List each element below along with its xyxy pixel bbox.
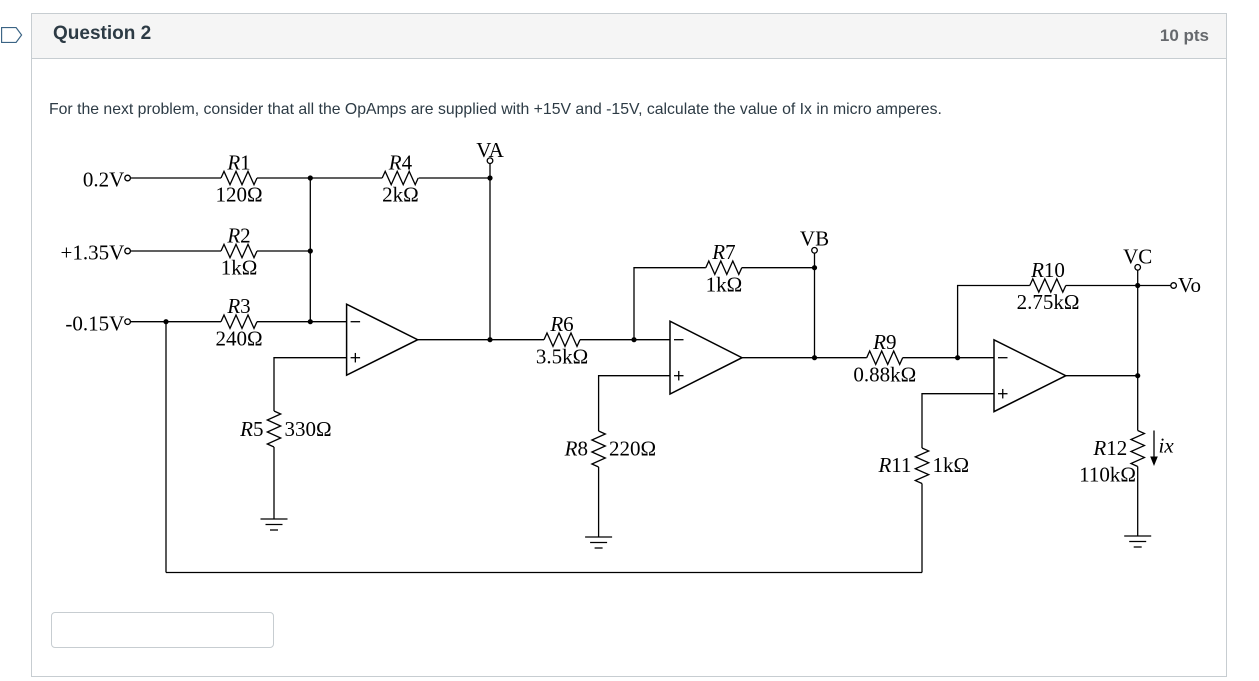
resistor R5 (267, 411, 280, 447)
svg-text:1kΩ: 1kΩ (221, 256, 258, 280)
svg-text:220Ω: 220Ω (609, 437, 656, 461)
node VB (800, 227, 829, 268)
wire 0.2V to R1 (130, 177, 221, 179)
wire R9 to U3 inverting input (903, 357, 994, 359)
resistor R9 (867, 351, 903, 364)
svg-text:0.2V: 0.2V (83, 168, 124, 192)
svg-text:3.5kΩ: 3.5kΩ (536, 344, 588, 368)
wire R11 to bottom rail (921, 484, 923, 573)
wire U1 output to R6 (490, 339, 544, 341)
wire U1 output to VA column (418, 339, 490, 341)
svg-text:ix: ix (1159, 434, 1175, 458)
op-amp U3 (994, 340, 1066, 412)
resistor R7 (706, 261, 742, 274)
svg-text:R11: R11 (877, 453, 911, 477)
wire R1 to R4 (257, 177, 382, 179)
svg-text:R6: R6 (549, 312, 573, 336)
source 0.2V terminal (83, 168, 131, 192)
svg-text:R3: R3 (226, 294, 250, 318)
op-amp U1 (347, 304, 418, 375)
wire U3 non-inverting input to R11 (922, 394, 994, 448)
svg-text:R9: R9 (872, 330, 896, 354)
wire R5 to ground (273, 447, 275, 519)
junction U1 output (487, 337, 492, 342)
resistor R4 (382, 171, 418, 184)
wire U1 non-inverting input to R5 (274, 358, 347, 411)
junction U3 inverting node (955, 355, 960, 360)
resistor R2 (221, 244, 257, 257)
resistor R8 (592, 431, 605, 467)
resistor R6 (544, 333, 580, 346)
svg-text:R7: R7 (711, 240, 735, 264)
node VA (476, 138, 504, 178)
svg-text:120Ω: 120Ω (215, 183, 262, 207)
svg-text:2.75kΩ: 2.75kΩ (1017, 290, 1080, 314)
svg-text:R2: R2 (226, 223, 250, 247)
svg-text:110kΩ: 110kΩ (1079, 463, 1136, 487)
junction VB (812, 265, 817, 270)
wire VB to U2 output (814, 268, 816, 358)
resistor R3 (221, 315, 257, 328)
wire U2 output to op-amp U3 inverting input (742, 357, 867, 359)
junction U2 inverting node (631, 337, 636, 342)
junction VC (1135, 283, 1140, 288)
svg-text:1kΩ: 1kΩ (933, 453, 970, 477)
wire R2 to bus (257, 250, 310, 252)
wire VC to U3 output (1137, 286, 1139, 376)
svg-text:R1: R1 (226, 150, 250, 174)
wire R8 to ground (598, 467, 600, 537)
flag icon (1, 27, 23, 45)
svg-text:R5: R5 (239, 417, 263, 441)
ground (R8) (585, 537, 612, 548)
wire R7 to node VB (742, 267, 815, 269)
svg-text:R12: R12 (1092, 436, 1127, 460)
svg-text:240Ω: 240Ω (215, 326, 262, 350)
resistor R12 (1131, 431, 1144, 467)
wire VA vertical (489, 178, 491, 340)
ground (R12) (1124, 536, 1151, 547)
node VC (1123, 245, 1152, 286)
wire U3 output (1066, 375, 1138, 377)
svg-text:R4: R4 (388, 150, 413, 174)
resistor R1 (221, 171, 257, 184)
wire feedback riser U2 (634, 268, 706, 340)
resistor R11 (915, 448, 928, 484)
wire R3 to op-amp U1 inverting input (257, 321, 347, 323)
svg-text:Vo: Vo (1178, 273, 1201, 297)
wire R10 to node VC (1066, 285, 1138, 287)
svg-text:+1.35V: +1.35V (61, 241, 125, 265)
wire bottom rail (166, 572, 922, 574)
wire feedback riser U3 (958, 286, 1030, 358)
junction VA (487, 175, 492, 180)
wire -0.15V to R3 (130, 321, 221, 323)
wire R12 to ground (1137, 467, 1139, 537)
terminal Vo (1171, 273, 1201, 297)
junction U2 output (812, 355, 817, 360)
svg-text:-0.15V: -0.15V (65, 311, 124, 335)
source +1.35V terminal (61, 241, 131, 265)
junction U3 output (1135, 373, 1140, 378)
wire left rail (165, 322, 167, 573)
junction R2-bus (308, 248, 313, 253)
wire R6 to op-amp U2 inverting input (580, 339, 670, 341)
svg-text:2kΩ: 2kΩ (382, 183, 419, 207)
resistor R10 (1030, 279, 1066, 292)
wire summing bus vertical (309, 178, 311, 322)
op-amp U2 (670, 321, 742, 394)
wire R4 to node VA (419, 177, 490, 179)
current arrow ix (1150, 431, 1174, 467)
ground (R5) (261, 519, 288, 530)
junction R1-bus (308, 175, 313, 180)
junction left-rail tap (163, 319, 168, 324)
wire U2 non-inverting input to R8 (599, 376, 670, 431)
svg-text:1kΩ: 1kΩ (706, 272, 743, 296)
wire +1.35V to R2 (130, 250, 221, 252)
junction R3-bus (308, 319, 313, 324)
source -0.15V terminal (65, 311, 130, 335)
wire U3 output to R12 (1137, 376, 1139, 431)
wire VC to Vo terminal (1138, 285, 1171, 287)
svg-text:330Ω: 330Ω (285, 417, 332, 441)
svg-text:R8: R8 (564, 437, 588, 461)
svg-text:0.88kΩ: 0.88kΩ (853, 362, 916, 386)
svg-text:R10: R10 (1030, 258, 1065, 282)
